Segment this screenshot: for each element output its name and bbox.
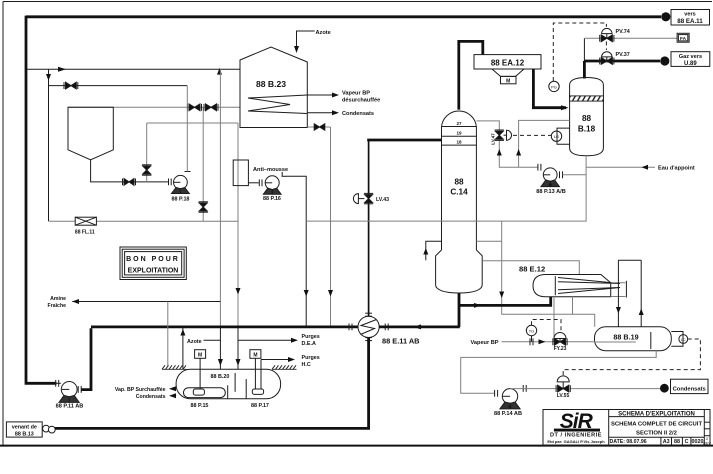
- instrument TG: [526, 325, 536, 335]
- wire tank left outlets: [171, 388, 177, 390]
- wire drum vapor return left: [426, 241, 442, 260]
- svg-text:Azote: Azote: [187, 339, 202, 345]
- svg-text:88 E.12: 88 E.12: [519, 265, 545, 274]
- wire E.11 riser: [368, 140, 370, 316]
- wire dashed LC to LV.55: [563, 339, 700, 375]
- svg-text:M: M: [253, 353, 257, 359]
- svg-text:C: C: [685, 439, 689, 445]
- pump 88 P.11 AB: [56, 380, 81, 403]
- svg-text:LC: LC: [681, 338, 686, 342]
- valve FY.23: [553, 333, 567, 346]
- wire line A: [26, 68, 240, 70]
- node condensats: [660, 384, 669, 393]
- border frame bottom: [0, 445, 713, 447]
- instrument LG bracket: [557, 128, 570, 144]
- wire dashed PG to PV bridge: [553, 23, 606, 81]
- svg-text:LV.43: LV.43: [376, 197, 389, 203]
- instrument LC on B.19: [671, 332, 683, 347]
- wire reflux line col to LV.47: [476, 121, 538, 167]
- wire E.11 right to column: [379, 325, 460, 328]
- wire gray drop x146.7: [146, 123, 148, 182]
- svg-text:vers: vers: [684, 12, 696, 18]
- svg-text:88 P.13 A/B: 88 P.13 A/B: [536, 189, 566, 195]
- wire drum right to E.12 bridge: [482, 261, 579, 275]
- column 88 C.14: [442, 111, 477, 250]
- svg-text:Condensats: Condensats: [136, 394, 166, 400]
- svg-text:TG: TG: [529, 329, 535, 334]
- steam sparger in B.19: [595, 341, 637, 343]
- wire vapeur BP desurchauffee out: [307, 94, 333, 96]
- ground hatching right: [272, 365, 297, 369]
- wire drop lineA->lineB: [48, 69, 50, 221]
- wire gray y123: [147, 122, 238, 124]
- svg-text:88 P.18: 88 P.18: [172, 197, 190, 203]
- svg-text:88 B.20: 88 B.20: [211, 374, 230, 380]
- wire eau d'appoint: [586, 166, 655, 168]
- svg-text:Fraîche: Fraîche: [48, 303, 67, 309]
- vessel 88 B.18: [570, 78, 604, 156]
- svg-text:DATE: 08.07.96: DATE: 08.07.96: [610, 439, 647, 445]
- svg-text:PG: PG: [551, 84, 557, 89]
- wire line B: [49, 85, 188, 87]
- svg-text:Azote: Azote: [316, 30, 331, 36]
- valve on line B: [64, 82, 78, 89]
- svg-text:88: 88: [454, 178, 464, 187]
- svg-text:SCHEMA D'EXPLOITATION: SCHEMA D'EXPLOITATION: [618, 411, 695, 417]
- valve LV.43: [353, 193, 373, 203]
- wire P.13 discharge: [563, 174, 587, 176]
- wire E.12 to B.19 head: [572, 297, 574, 314]
- wire hopper outlet: [91, 160, 168, 182]
- svg-text:SECTION II 2/2: SECTION II 2/2: [636, 430, 678, 436]
- svg-text:88 P.16: 88 P.16: [263, 196, 281, 202]
- wire purges HC from P.17: [261, 359, 292, 361]
- svg-text:D.E.A: D.E.A: [302, 341, 316, 347]
- svg-text:REV: REV: [703, 441, 711, 445]
- wire long vert x238: [237, 123, 239, 327]
- svg-text:88 B.23: 88 B.23: [256, 79, 286, 89]
- svg-text:Gaz vers: Gaz vers: [679, 54, 702, 60]
- wire dashed TG to FY.23: [532, 320, 562, 332]
- svg-text:88 E.11 AB: 88 E.11 AB: [382, 337, 420, 346]
- wire C.14 drum bottom to E.12: [458, 293, 461, 327]
- wire PV.37 line to U.89: [584, 60, 660, 63]
- column bottom drum: [436, 250, 483, 293]
- wire reboiler loop down/up B.19: [618, 259, 641, 261]
- wire branch down to reboiler loop: [502, 221, 595, 327]
- vessel 88 B.23: [240, 47, 307, 128]
- wire condensate drop x330.5: [330, 127, 332, 327]
- wire long vert x220.4: [219, 69, 221, 327]
- wire azote to B.20: [204, 339, 221, 341]
- wire gray drop near tank: [167, 302, 169, 367]
- svg-text:C.14: C.14: [450, 188, 468, 197]
- svg-text:88 P.14 AB: 88 P.14 AB: [494, 411, 522, 417]
- valve hourglass x203.2: [199, 202, 208, 212]
- ground hatching left: [162, 365, 187, 369]
- title block: [543, 410, 710, 446]
- pump bowl P.15: [193, 389, 204, 395]
- svg-text:PV.37: PV.37: [616, 52, 630, 58]
- wire dashed LV.47 to LG: [513, 134, 551, 136]
- coil zigzag in B.23: [248, 95, 307, 114]
- svg-text:Anti–mousse: Anti–mousse: [253, 167, 288, 173]
- svg-text:PV.74: PV.74: [616, 29, 630, 35]
- pump 88 P.14 AB: [495, 385, 527, 409]
- drum 88 B.19: [595, 327, 672, 351]
- svg-text:EXPLOITATION: EXPLOITATION: [128, 268, 179, 275]
- wire B.18 liquid to P.13: [519, 120, 570, 167]
- svg-text:88 P.15: 88 P.15: [191, 403, 209, 409]
- wire feed to column y140: [367, 139, 441, 142]
- wire column overhead to EA.12: [459, 41, 483, 109]
- wire P.18 discharge riser: [186, 86, 188, 172]
- wire PV.74 line to FA: [584, 37, 677, 39]
- valve C1: [188, 104, 202, 111]
- wire E.12 condensate drop: [553, 297, 555, 342]
- svg-text:27: 27: [456, 121, 462, 126]
- wire B.18 bottom outlet: [306, 156, 586, 221]
- motor M P.17: [250, 350, 261, 359]
- pump 88 P.18: [169, 172, 191, 194]
- wire main amine left riser: [26, 16, 57, 384]
- motor M P.15: [195, 350, 206, 359]
- svg-text:88 B.13: 88 B.13: [15, 431, 34, 437]
- svg-text:88 B.19: 88 B.19: [613, 332, 638, 341]
- valve C2: [204, 104, 218, 111]
- svg-text:U.89: U.89: [684, 61, 697, 67]
- valve PV.74: [600, 28, 614, 41]
- svg-text:88 P.11 AB: 88 P.11 AB: [56, 404, 84, 410]
- valve LV.55: [556, 376, 570, 392]
- svg-text:désurchauffée: désurchauffée: [342, 98, 380, 104]
- wire main thick cross line y326.9: [91, 325, 358, 328]
- svg-text:FY.23: FY.23: [554, 346, 567, 352]
- valve B.23 bottom outlet: [307, 126, 330, 128]
- node Gaz vers U.89: [660, 56, 669, 65]
- wire P.14 discharge to condensats: [510, 388, 557, 390]
- svg-text:SCHEMA COMPLET DE CIRCUIT: SCHEMA COMPLET DE CIRCUIT: [611, 421, 702, 427]
- svg-text:88: 88: [582, 114, 592, 123]
- valve hourglass x146.7: [142, 165, 151, 175]
- stamp BON POUR EXPLOITATION: [120, 247, 186, 280]
- pump 88 P.16: [248, 172, 286, 194]
- svg-text:B.18: B.18: [578, 125, 596, 134]
- hopper tank: [68, 107, 113, 160]
- svg-text:Eau d'appoint: Eau d'appoint: [658, 166, 695, 172]
- E.12 tube extension: [611, 282, 626, 284]
- pump bowl P.17: [252, 389, 263, 394]
- svg-text:88 EA.11: 88 EA.11: [677, 18, 703, 25]
- filter 88 FL.11: [49, 220, 239, 222]
- svg-text:M: M: [508, 405, 511, 409]
- svg-text:Condensats: Condensats: [673, 387, 706, 393]
- svg-text:DT / INGENIERIE: DT / INGENIERIE: [550, 433, 602, 439]
- svg-text:19: 19: [456, 131, 462, 136]
- svg-text:Vapeur BP: Vapeur BP: [342, 91, 370, 97]
- svg-text:A3: A3: [663, 439, 670, 445]
- svg-text:M: M: [506, 79, 510, 85]
- wire B.19 bottoms to P.14: [461, 351, 657, 394]
- wire EA.12 outlet to B.18: [533, 69, 566, 108]
- svg-text:LV.47: LV.47: [491, 133, 496, 145]
- svg-text:Condensats: Condensats: [342, 111, 374, 117]
- svg-text:Vapeur BP: Vapeur BP: [471, 340, 499, 346]
- tank anti-mousse: [233, 160, 248, 186]
- svg-text:88: 88: [674, 439, 680, 445]
- wire bottom thick line: [55, 427, 369, 428]
- border frame left: [2, 2, 4, 446]
- svg-text:FA: FA: [680, 36, 687, 42]
- wire drum top right to header: [476, 240, 501, 242]
- wire gray drop x203.2: [202, 107, 204, 221]
- border frame top: [3, 1, 712, 3]
- node FA: [677, 33, 689, 42]
- svg-text:88 FL.11: 88 FL.11: [75, 230, 95, 236]
- node vers 88 EA.11: [661, 12, 670, 21]
- wire main amine header top: [26, 15, 661, 18]
- svg-text:Purges: Purges: [302, 355, 320, 361]
- svg-text:88 P.17: 88 P.17: [251, 403, 269, 409]
- wire amine fraiche: [72, 301, 220, 303]
- svg-text:88 EA.12: 88 EA.12: [491, 58, 525, 67]
- svg-text:Amine: Amine: [50, 296, 66, 302]
- wire P.16 discharge: [286, 176, 306, 327]
- svg-text:venant de: venant de: [12, 424, 37, 430]
- valve PV.37: [600, 52, 614, 65]
- svg-text:BON POUR: BON POUR: [126, 256, 180, 263]
- svg-text:Purges: Purges: [302, 334, 320, 340]
- wire condensats out: [307, 112, 333, 114]
- wire line C hopper top to B.23: [68, 106, 240, 108]
- svg-text:Etd par: GAGALI P.Vls Joseph: Etd par: GAGALI P.Vls Joseph: [547, 439, 605, 444]
- tank 88 B.20: [176, 369, 281, 399]
- air cooler 88 EA.12: [474, 55, 541, 69]
- svg-text:H.C: H.C: [302, 362, 311, 368]
- node venant de 88 B.13: [6, 422, 42, 437]
- svg-text:18: 18: [456, 140, 462, 145]
- wire vapeur BP steam line: [502, 341, 595, 343]
- label Azote top: [297, 31, 315, 50]
- heat exchanger 88 E.11 AB: [358, 316, 379, 337]
- tank internals: [227, 385, 229, 398]
- valve hopper suction: [123, 179, 136, 186]
- wire riser from tank to amine line: [182, 327, 184, 369]
- svg-text:0020: 0020: [692, 439, 704, 445]
- svg-text:LV.55: LV.55: [557, 393, 570, 399]
- svg-text:M: M: [198, 353, 202, 359]
- svg-text:Vap. BP Surchauffée: Vap. BP Surchauffée: [115, 387, 166, 393]
- svg-text:LG: LG: [554, 134, 559, 139]
- wire purges DEA: [238, 339, 296, 341]
- pump 88 P.13 A/B: [538, 164, 563, 187]
- wire B.18 overhead riser: [583, 61, 586, 79]
- valve LV.47: [495, 130, 512, 140]
- instrument PG: [549, 81, 559, 91]
